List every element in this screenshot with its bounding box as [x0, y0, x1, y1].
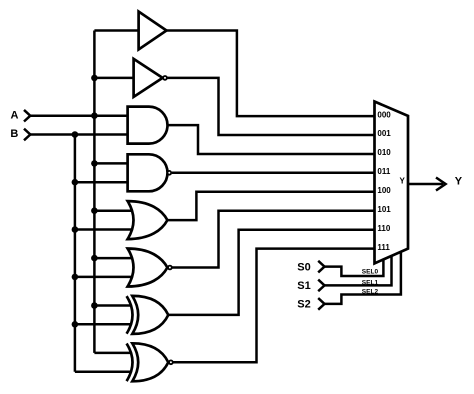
- wire OR top input: [94, 209, 133, 212]
- XNOR gate body: [132, 343, 168, 381]
- wire bus A vertical: [93, 31, 96, 353]
- wire XNOR top input: [94, 352, 131, 355]
- svg-text:101: 101: [377, 205, 391, 214]
- buffer gate: [139, 12, 167, 50]
- wire XOR bottom input: [75, 323, 131, 326]
- AND gate: [128, 107, 168, 144]
- svg-text:010: 010: [377, 148, 391, 157]
- junction bus B / XOR bottom: [72, 321, 79, 328]
- svg-text:B: B: [10, 128, 18, 140]
- svg-text:001: 001: [377, 129, 391, 138]
- NOR gate body: [128, 249, 168, 287]
- NOR gate bubble: [168, 266, 172, 270]
- svg-text:011: 011: [377, 167, 390, 176]
- wire select SEL1 from S1: [325, 256, 392, 286]
- input port chevron S1: [318, 280, 324, 292]
- input port chevron S2: [318, 298, 324, 310]
- NOT gate triangle: [134, 59, 163, 97]
- wire AND output to mux input 010: [168, 125, 375, 154]
- wire B input horizontal: [30, 133, 129, 136]
- wire NOR bottom input: [75, 276, 133, 279]
- junction bus B / NOR bottom: [72, 274, 79, 281]
- wire XNOR output to mux input 111: [173, 249, 374, 363]
- wire XOR top input: [94, 304, 131, 307]
- wire OR output to mux input 100: [167, 192, 374, 220]
- junction bus B / OR bottom: [72, 226, 79, 233]
- XNOR gate leading arc: [127, 344, 133, 382]
- wire NOT input: [94, 77, 134, 80]
- svg-text:111: 111: [377, 243, 390, 252]
- XOR gate body: [132, 296, 168, 334]
- input port chevron S0: [318, 261, 324, 273]
- svg-text:Y: Y: [455, 176, 463, 188]
- wire NOT output to mux input 001: [167, 78, 374, 135]
- wire buffer output to mux input 000: [167, 31, 375, 117]
- junction bus B / wire B: [72, 131, 79, 138]
- svg-text:SEL2: SEL2: [362, 289, 379, 296]
- junction bus A / NOT input: [91, 75, 98, 82]
- wire NAND bottom input: [75, 181, 129, 184]
- svg-text:S1: S1: [297, 280, 310, 292]
- wire XOR output to mux input 110: [168, 230, 374, 315]
- svg-text:S0: S0: [297, 261, 310, 273]
- svg-text:000: 000: [377, 110, 391, 119]
- svg-text:S2: S2: [297, 299, 310, 311]
- junction bus B / NAND bottom: [72, 179, 79, 186]
- svg-text:SEL0: SEL0: [362, 269, 379, 276]
- NAND gate bubble: [167, 171, 171, 175]
- OR gate: [128, 201, 168, 239]
- junction bus A / wire A: [91, 112, 98, 119]
- input port chevron B: [24, 129, 30, 141]
- junction bus A / NAND top: [91, 160, 98, 167]
- wire select SEL2 from S2: [325, 252, 401, 304]
- junction bus A / XOR top: [91, 302, 98, 309]
- junction bus A / NOR top: [91, 255, 98, 262]
- junction bus A / OR top: [91, 207, 98, 214]
- output Y wire: [408, 183, 443, 186]
- wire NOR top input: [94, 257, 133, 260]
- wire NOR output to mux input 101: [172, 211, 374, 268]
- input port chevron A: [24, 110, 30, 122]
- NAND gate body: [128, 154, 168, 191]
- XNOR gate bubble: [169, 360, 173, 364]
- wire buffer input: [94, 29, 138, 32]
- XOR gate leading arc: [127, 296, 133, 334]
- wire select SEL0 from S0: [325, 259, 384, 276]
- svg-text:110: 110: [377, 224, 390, 233]
- svg-text:SEL1: SEL1: [362, 279, 379, 286]
- svg-text:Y: Y: [400, 176, 406, 185]
- NOT gate bubble: [163, 76, 167, 80]
- multiplexer body: [375, 102, 409, 264]
- wire NAND output to mux input 011: [172, 172, 375, 175]
- wire A input horizontal: [30, 114, 129, 117]
- output Y arrowhead: [436, 178, 446, 191]
- svg-text:A: A: [11, 110, 19, 122]
- wire OR bottom input: [75, 228, 133, 231]
- svg-text:100: 100: [377, 186, 391, 195]
- wire NAND top input: [94, 162, 129, 165]
- wire XNOR bottom input: [75, 371, 131, 374]
- wire bus B vertical: [74, 135, 77, 372]
